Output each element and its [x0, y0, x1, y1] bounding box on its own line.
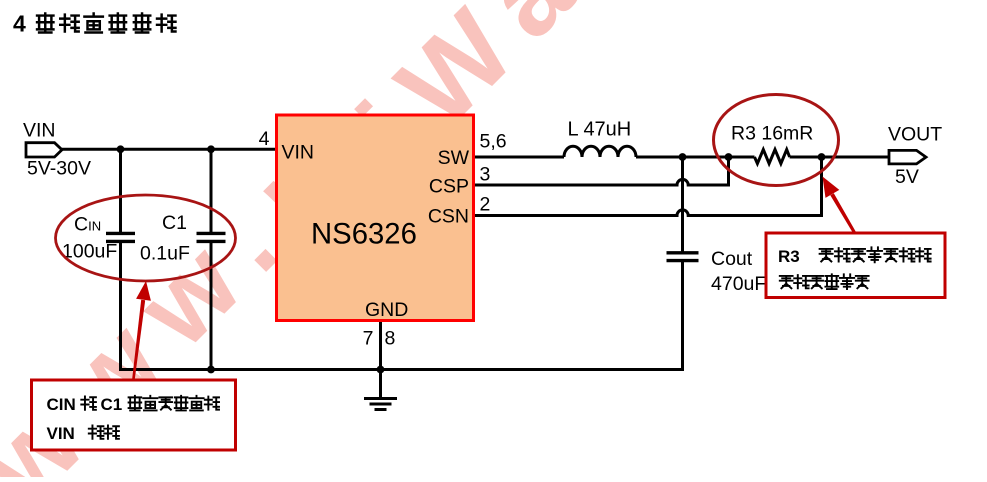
wire SW node down to Cout — [681, 157, 684, 252]
svg-text:C1: C1 — [101, 395, 123, 414]
watermark www.nsiWay — [0, 0, 673, 482]
VIN input connector — [26, 143, 62, 157]
wire CSP with hop — [474, 157, 729, 185]
svg-text:7: 7 — [363, 328, 374, 350]
capacitor CIN plates — [106, 233, 135, 241]
wire GND pin — [379, 321, 382, 398]
svg-text:5,6: 5,6 — [480, 131, 507, 153]
inductor L1 — [564, 146, 636, 157]
svg-text:VIN: VIN — [47, 424, 75, 443]
wire Cout to ground rail — [681, 261, 684, 371]
svg-text:4: 4 — [13, 11, 26, 37]
svg-text:100uF: 100uF — [62, 241, 117, 263]
svg-text:L 47uH: L 47uH — [568, 119, 632, 141]
capacitor Cout plates — [667, 253, 699, 261]
svg-text:R3 16mR: R3 16mR — [731, 123, 813, 145]
svg-text:CSP: CSP — [429, 176, 469, 198]
wire C1 vertical bottom — [210, 240, 213, 370]
wire SW to inductor — [474, 156, 565, 159]
wire R3 to VOUT — [790, 156, 889, 159]
svg-text:5V-30V: 5V-30V — [27, 158, 91, 180]
svg-text:NS6326: NS6326 — [311, 218, 417, 251]
capacitor C1 plates — [197, 233, 226, 241]
red ellipse around CIN C1 — [56, 195, 236, 281]
wire CIN vertical bottom — [119, 240, 122, 368]
annotation box 2 — [766, 233, 945, 298]
wire CIN vertical top — [119, 149, 122, 232]
svg-text:3: 3 — [480, 164, 491, 186]
title: 4 典型应用电路 — [13, 11, 175, 37]
annotation box 1 text: CIN和C1 电容尽量靠近 / VIN 引脚 — [47, 395, 220, 443]
svg-text:4: 4 — [259, 128, 270, 150]
IC U1 NS6326 body — [277, 115, 474, 321]
annotation box 2 text: R3 反馈至芯片引脚 / 导线尽量等长 — [778, 247, 931, 289]
svg-text:SW: SW — [438, 147, 470, 169]
annotation arrow 2 — [823, 177, 856, 232]
svg-text:470uF: 470uF — [711, 273, 766, 295]
svg-text:R3: R3 — [778, 247, 800, 266]
svg-text:8: 8 — [385, 328, 396, 350]
wire bottom ground rail — [119, 368, 683, 371]
svg-text:VIN: VIN — [282, 142, 315, 164]
wire CSN with hop — [474, 157, 822, 216]
svg-text:VIN: VIN — [23, 120, 56, 142]
svg-text:C1: C1 — [162, 212, 187, 234]
svg-text:VOUT: VOUT — [888, 124, 942, 146]
resistor R3 — [755, 150, 790, 164]
svg-text:CIN: CIN — [47, 395, 76, 414]
svg-text:CSN: CSN — [428, 206, 469, 228]
annotation arrow 1 — [132, 281, 151, 379]
ground symbol — [364, 399, 397, 410]
svg-text:5V: 5V — [895, 166, 919, 188]
wire inductor to R3 node — [636, 156, 755, 159]
chip labels — [282, 142, 470, 322]
svg-text:Cout: Cout — [711, 248, 753, 270]
wire C1 vertical top — [210, 149, 213, 232]
svg-text:2: 2 — [480, 194, 491, 216]
junction node dots — [117, 145, 826, 373]
wire VIN rail — [62, 148, 277, 151]
svg-text:GND: GND — [365, 299, 408, 321]
red ellipse around R3 — [714, 95, 839, 186]
svg-text:0.1uF: 0.1uF — [140, 243, 190, 265]
annotation box 1 — [32, 380, 236, 450]
VOUT output connector — [889, 150, 926, 164]
